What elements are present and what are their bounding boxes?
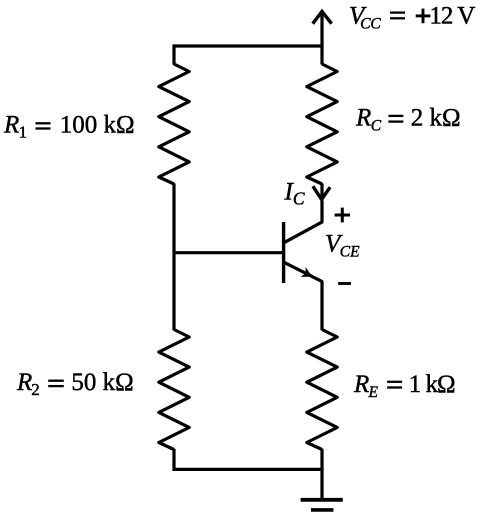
svg-text:2 kΩ: 2 kΩ — [411, 105, 461, 132]
label RE name — [353, 371, 379, 401]
label R2 name — [16, 369, 40, 399]
svg-text:C: C — [371, 118, 382, 135]
wire base (left branch to transistor base) — [174, 251, 285, 254]
wire left branch lower + bottom horizontal — [174, 449, 324, 470]
resistor R1 — [159, 64, 189, 184]
resistor RE — [307, 330, 337, 450]
transistor Q1 collector lead — [284, 222, 323, 243]
svg-text:1: 1 — [19, 122, 28, 141]
label VCC value plus sign — [416, 9, 431, 24]
label VCE minus sign — [338, 282, 351, 285]
wire collector (RC to transistor collector) — [320, 183, 323, 222]
wire RE to ground — [320, 449, 323, 500]
label VCC name — [349, 3, 381, 33]
label RC equals — [388, 116, 403, 122]
label RE equals — [387, 382, 402, 388]
resistor RC — [307, 64, 337, 184]
transistor Q1 emitter arrowhead — [301, 267, 313, 277]
ground — [301, 500, 343, 510]
label RC name — [355, 105, 382, 135]
svg-text:1 kΩ: 1 kΩ — [409, 371, 455, 398]
resistor R2 — [159, 330, 189, 450]
svg-text:100 kΩ: 100 kΩ — [60, 112, 135, 139]
current arrow IC arrowhead — [313, 186, 330, 199]
label R1 name — [3, 112, 27, 142]
svg-text:50 kΩ: 50 kΩ — [71, 369, 133, 396]
transistor Q1 emitter lead — [284, 262, 323, 282]
power symbol VCC arrow — [313, 11, 332, 64]
wire left branch middle (R1 to R2) — [172, 183, 175, 330]
svg-text:R: R — [3, 112, 19, 139]
svg-text:CC: CC — [360, 15, 381, 32]
wire emitter (transistor to RE) — [320, 281, 323, 330]
label R1 equals — [36, 123, 51, 128]
svg-text:R: R — [355, 105, 371, 132]
svg-text:12 V: 12 V — [429, 3, 475, 30]
label VCE plus sign — [335, 208, 350, 223]
svg-text:E: E — [368, 384, 379, 401]
svg-text:VCE: VCE — [325, 231, 360, 261]
wire top horizontal — [174, 46, 324, 65]
svg-text:2: 2 — [31, 380, 40, 399]
svg-text:R: R — [16, 369, 32, 396]
label R2 equals — [48, 381, 64, 386]
label VCC equals — [390, 13, 405, 19]
transistor Q1 base bar — [282, 222, 285, 283]
svg-text:R: R — [353, 371, 369, 398]
svg-text:IC: IC — [284, 179, 305, 209]
